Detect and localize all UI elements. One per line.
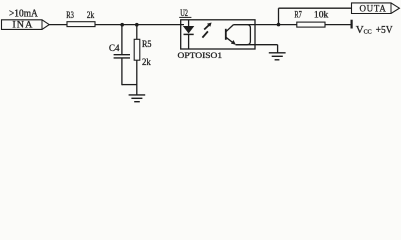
wire INA to R3	[49, 24, 67, 26]
resistor R3	[66, 10, 95, 26]
transistor Q (phototransistor)	[226, 25, 251, 45]
wire bottom rail C4 to R5	[122, 84, 137, 86]
svg-text:+5V: +5V	[376, 25, 393, 36]
light arrows	[202, 23, 211, 38]
svg-text:C4: C4	[109, 43, 120, 53]
svg-text:10k: 10k	[314, 10, 329, 20]
port INA	[2, 20, 50, 31]
svg-text:>10mA: >10mA	[9, 9, 39, 20]
svg-text:INA: INA	[12, 20, 33, 31]
node junction OUTA	[277, 23, 281, 27]
wire junction to R7	[279, 24, 297, 26]
svg-text:2k: 2k	[142, 57, 151, 67]
port OUTA	[352, 3, 400, 15]
node junction R5	[135, 23, 139, 27]
wire emitter to ground	[236, 44, 278, 46]
svg-text:R5: R5	[142, 39, 152, 49]
capacitor C4	[109, 25, 130, 86]
resistor R5	[134, 25, 152, 95]
svg-text:R3: R3	[66, 10, 74, 20]
wire collector to junction	[234, 24, 279, 26]
ground (emitter)	[269, 53, 286, 60]
svg-text:CC: CC	[364, 29, 372, 35]
ground (C4/R5)	[129, 95, 146, 102]
wire to OUTA port	[279, 7, 352, 9]
wire junction up	[278, 8, 280, 24]
node junction C4	[120, 23, 124, 27]
svg-text:OPTOISO1: OPTOISO1	[178, 50, 223, 60]
svg-text:V: V	[356, 24, 364, 36]
wire R7 to Vcc	[325, 24, 351, 26]
power Vcc bar	[351, 20, 353, 29]
LED inside U2	[184, 20, 194, 49]
svg-text:OUTA: OUTA	[360, 3, 387, 14]
svg-text:R7: R7	[294, 10, 302, 20]
op-amp U2 optocoupler box	[178, 8, 256, 60]
resistor R7	[294, 10, 328, 27]
label Vcc +5V	[356, 24, 393, 36]
svg-text:2k: 2k	[87, 10, 95, 20]
svg-text:U2: U2	[180, 8, 188, 18]
wire R3 to U2	[95, 24, 184, 26]
